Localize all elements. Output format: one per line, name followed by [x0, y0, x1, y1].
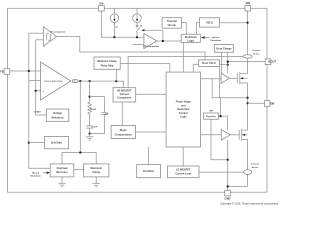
svg-text:Pulse Skip: Pulse Skip — [101, 64, 114, 67]
node COMP junction 1 — [79, 80, 81, 82]
svg-text:Boot UVLO: Boot UVLO — [202, 62, 215, 65]
svg-text:EN: EN — [100, 1, 104, 5]
box Shutdown Logic — [181, 34, 200, 43]
svg-text:Thermal: Thermal — [167, 20, 177, 23]
box Regulator — [204, 111, 219, 120]
wire HS comparator to Slope Compensation — [121, 102, 123, 126]
node EN comparator output — [162, 40, 164, 42]
wire reference to error amplifier — [36, 90, 41, 92]
op-amp HS gate driver — [221, 73, 229, 83]
svg-text:Hiccup: Hiccup — [168, 24, 177, 27]
svg-text:Comparator: Comparator — [117, 97, 131, 100]
svg-text:Overload: Overload — [57, 167, 68, 170]
box Slope Compensation — [111, 126, 135, 139]
wire COMP node — [78, 81, 124, 88]
wire EN comparator output to Shutdown Logic — [157, 40, 181, 42]
svg-text:Shutdown: Shutdown — [30, 175, 41, 178]
svg-text:EN Comparator: EN Comparator — [143, 45, 159, 48]
node SW junction 2 — [247, 102, 249, 104]
wire LS source to current sense — [247, 140, 249, 170]
capacitor 2pF branch — [90, 97, 109, 134]
box Minimum Clamp Pulse Skip — [94, 57, 120, 69]
wire EN pin drop — [101, 11, 143, 37]
wire HS driver bootstrap return — [212, 79, 247, 98]
svg-text:Hiccup: Hiccup — [32, 172, 40, 174]
current sense HS ellipse — [243, 55, 252, 58]
ground compensation network — [86, 134, 94, 141]
box Thermal Hiccup — [162, 18, 181, 29]
box Boot Charge — [215, 45, 234, 53]
wire Soft Start to FB net — [29, 142, 45, 144]
wire compensation branch — [89, 81, 91, 102]
svg-text:Hiccup: Hiccup — [212, 37, 220, 39]
pin VIN — [245, 1, 251, 11]
op-amp OV comparator — [43, 27, 65, 47]
svg-text:Current Limit: Current Limit — [175, 173, 191, 176]
svg-text:and: and — [181, 104, 186, 107]
node GND junction 2 — [227, 185, 229, 187]
svg-text:Shutdown: Shutdown — [210, 39, 221, 42]
node VIN junction — [247, 22, 249, 24]
svg-text:Control: Control — [179, 112, 188, 115]
svg-text:Voltage: Voltage — [53, 112, 62, 115]
node COMP junction 2 — [89, 80, 91, 82]
wire Overload Recovery to Maximum Clamp — [74, 168, 84, 170]
transistor Q2 LS MOSFET — [230, 129, 247, 141]
box Overload Recovery — [50, 164, 74, 177]
capacitor 2.3nF — [86, 116, 98, 134]
svg-text:Logic: Logic — [187, 40, 194, 43]
wire Boot Charge to BOOT net — [227, 52, 229, 73]
wire Oscillator to Power Stage — [148, 147, 150, 165]
wire UVLO to VIN rail — [219, 22, 247, 24]
svg-text:Dead-time: Dead-time — [177, 108, 190, 111]
wire GND rail — [227, 140, 229, 190]
wire EN comparator reference stub — [133, 44, 144, 46]
label current sense HS — [252, 49, 260, 56]
wire Thermal Hiccup to Shutdown Logic — [181, 23, 186, 35]
pin GND — [225, 190, 231, 200]
ground Overload Recovery — [58, 177, 66, 187]
wire HS source to SW — [247, 83, 249, 130]
node BOOT junction — [227, 61, 229, 63]
transistor Q1 HS MOSFET — [229, 72, 247, 84]
label Hiccup Shutdown input arrow — [201, 36, 222, 42]
wire reference net vertical — [36, 40, 47, 115]
wire OV comparator output to Boot UVLO top — [56, 37, 205, 60]
svg-text:UVLO: UVLO — [206, 21, 213, 24]
wire Boot Charge to HS driver supply — [221, 52, 223, 73]
wire current sense signal to HS comparator — [128, 57, 244, 88]
current source Ih — [133, 8, 143, 27]
wire clamp tee — [62, 153, 96, 164]
box HS MOSFET Current Comparator — [113, 88, 136, 102]
box Soft Start — [44, 136, 68, 148]
current source Ip — [110, 8, 119, 37]
svg-text:Clamp: Clamp — [92, 171, 100, 174]
resistor R comp 30 kOhm — [88, 102, 96, 116]
wire SW to pin — [248, 102, 265, 104]
wire Minimum Clamp bottom to COMP — [115, 69, 117, 81]
error amplifier gm output symbol — [72, 80, 77, 83]
op-amp U1 error amplifier — [41, 62, 71, 100]
svg-text:Logic: Logic — [180, 116, 187, 119]
wire COMP clamp vertical — [79, 81, 81, 152]
wire Boot UVLO bottom to SW sense — [219, 66, 221, 97]
svg-text:Power Stage: Power Stage — [176, 101, 192, 104]
wire HS drain — [247, 58, 249, 74]
switch control arrow from EN comparator output — [141, 29, 163, 41]
svg-text:Shutdown: Shutdown — [185, 36, 198, 39]
pin FB — [0, 69, 10, 75]
IC boundary border — [8, 8, 268, 192]
label Hiccup Shutdown output arrow — [30, 172, 50, 178]
box Boot UVLO — [199, 60, 220, 67]
svg-text:Current: Current — [252, 49, 260, 52]
op-amp LS gate driver — [221, 130, 230, 140]
wire VIN rail — [247, 11, 249, 55]
wire Shutdown Logic to Power Stage — [182, 43, 184, 73]
box UVLO — [199, 18, 219, 27]
node Boot UVLO junction — [227, 64, 229, 66]
wire BOOT net to BOOT pin — [228, 61, 266, 63]
wire Slope Compensation to Power Stage — [136, 131, 167, 133]
node soft start junction — [28, 142, 30, 144]
svg-text:Sense: Sense — [252, 167, 259, 169]
node COMP junction 3 — [115, 80, 117, 82]
wire FB net vertical — [29, 33, 50, 168]
svg-text:GND: GND — [225, 197, 231, 201]
switch for Ih hysteresis — [136, 23, 140, 38]
svg-text:Soft Start: Soft Start — [51, 142, 62, 145]
op-amp EN comparator — [143, 33, 159, 48]
svg-text:VIN: VIN — [246, 1, 251, 5]
pin EN — [99, 1, 105, 11]
svg-text:Recovery: Recovery — [56, 171, 68, 174]
svg-text:ERROR AMPLIFIER: ERROR AMPLIFIER — [44, 80, 63, 83]
wire Boot UVLO right — [220, 64, 228, 66]
svg-text:Sense: Sense — [253, 53, 260, 55]
svg-text:Copyright © 2016, Texas Instru: Copyright © 2016, Texas Instruments Inco… — [220, 202, 279, 206]
wire UVLO to Shutdown Logic — [197, 23, 200, 35]
svg-text:Boot Charge: Boot Charge — [217, 47, 233, 50]
node GND junction 1 — [227, 159, 229, 161]
wire FB pin to error amplifier — [10, 70, 41, 72]
wire Power Stage to HS driver — [201, 78, 222, 80]
wire HS comparator output to Power Stage — [136, 93, 166, 95]
node FB junction — [28, 70, 30, 72]
wire soft start to error amplifier middle input — [29, 80, 41, 82]
wire LS limit to Power Stage — [182, 147, 184, 166]
wire Minimum Clamp output to Power Stage — [120, 64, 170, 73]
wire LS limit to current sense — [199, 171, 244, 173]
node EN comparator input junction Ih — [136, 36, 138, 38]
svg-text:VIN: VIN — [209, 111, 213, 113]
box Power Stage and Dead-time Control Logic — [166, 72, 200, 147]
svg-text:LS MOSFET: LS MOSFET — [176, 169, 191, 172]
svg-text:Slope: Slope — [120, 129, 127, 132]
ground Maximum Clamp — [92, 177, 100, 187]
svg-text:0.596V: 0.596V — [34, 112, 41, 114]
svg-text:SW: SW — [270, 102, 275, 106]
svg-text:Current: Current — [251, 163, 259, 166]
svg-text:Oscillator: Oscillator — [143, 170, 155, 173]
wire Regulator right to LS driver supply — [219, 115, 221, 117]
pin SW — [264, 101, 275, 107]
box Maximum Clamp — [84, 164, 109, 177]
wire LS sense return to GND — [228, 175, 248, 187]
svg-text:2pF: 2pF — [104, 114, 109, 116]
box Voltage Reference — [34, 109, 69, 121]
svg-text:Minimum Clamp: Minimum Clamp — [97, 60, 117, 63]
svg-text:Regulator: Regulator — [206, 115, 216, 118]
svg-text:OV comparator: OV comparator — [50, 30, 66, 33]
node compensation ground junction — [89, 133, 91, 135]
box Oscillator — [137, 165, 161, 178]
svg-text:BOOT: BOOT — [268, 60, 276, 64]
svg-text:Compensation: Compensation — [115, 133, 133, 136]
wire Boot UVLO left to Power Stage — [193, 64, 198, 72]
svg-text:2.3nF: 2.3nF — [92, 127, 98, 129]
svg-text:FB: FB — [0, 70, 4, 74]
node reference junction — [35, 90, 37, 92]
svg-text:Reference: Reference — [51, 116, 64, 119]
svg-text:30 kΩ: 30 kΩ — [90, 109, 96, 111]
node EN comparator input junction Ip — [113, 36, 115, 38]
wire Regulator return to GND rail — [211, 119, 228, 160]
svg-text:Maximum: Maximum — [90, 167, 102, 170]
pin BOOT — [265, 59, 276, 65]
node compensation split — [89, 96, 91, 98]
wire OV comparator inputs — [29, 32, 44, 34]
box LS MOSFET Current Limit — [168, 166, 200, 178]
node SW junction 1 — [247, 97, 249, 99]
current sense LS ellipse — [244, 170, 252, 175]
node clamp junction — [79, 151, 81, 153]
label current sense LS — [251, 163, 259, 170]
wire Power Stage to LS driver — [201, 134, 222, 136]
node Regulator junction — [220, 115, 222, 117]
